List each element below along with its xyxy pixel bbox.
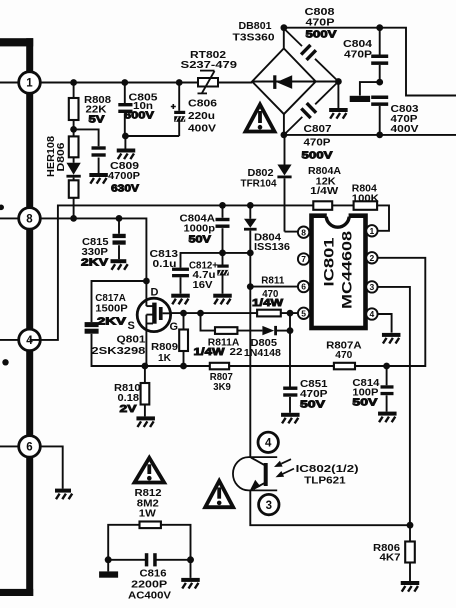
svg-text:TLP621: TLP621 [304, 475, 346, 487]
svg-text:3K9: 3K9 [213, 381, 231, 393]
node pin 4 (winding) [0, 329, 40, 351]
capacitor C812 (electrolytic) [217, 253, 228, 294]
label C805 10n 600V [124, 92, 158, 122]
resistor R811 [257, 310, 281, 317]
ground below pin 6 winding [55, 489, 72, 500]
svg-text:S: S [128, 320, 135, 332]
svg-text:100K: 100K [352, 192, 379, 204]
ground below C809 [89, 173, 108, 184]
label C813 0.1u [150, 248, 179, 270]
svg-text:1/4W: 1/4W [252, 297, 283, 309]
svg-text:AC400V: AC400V [128, 590, 171, 602]
wire pin 3 down to R806 node [378, 287, 410, 525]
svg-text:D: D [151, 287, 159, 299]
wire to pin 6 [250, 286, 298, 288]
ground below C816 right [181, 560, 200, 589]
capacitor C804A [216, 205, 230, 253]
pin 3 of IC801 [366, 281, 377, 292]
label C807 470P 500V [302, 123, 333, 162]
capacitor C815 [113, 218, 126, 259]
label R804 100K [352, 183, 379, 205]
speck dot left edge upper [0, 205, 4, 211]
svg-text:22: 22 [230, 346, 243, 358]
svg-text:2KV: 2KV [81, 257, 108, 269]
svg-text:MC44608: MC44608 [340, 230, 355, 309]
svg-text:470P: 470P [304, 137, 331, 149]
svg-text:8: 8 [26, 214, 33, 226]
pin 2 of IC801 [366, 252, 377, 263]
svg-text:2KV: 2KV [97, 316, 126, 328]
label R807A 470 [326, 340, 362, 362]
junction C806 top [176, 79, 183, 86]
plus sign of C806 [171, 104, 176, 109]
svg-text:6: 6 [26, 442, 32, 454]
svg-text:TFR104: TFR104 [241, 178, 277, 190]
resistor R804 [354, 201, 378, 210]
capacitor C804 [371, 28, 388, 82]
junction C804A top [219, 202, 226, 209]
junction D805 cathode [287, 327, 294, 334]
label R809 1K [151, 341, 178, 364]
resistor R808 [69, 83, 79, 130]
junction bridge right node [335, 78, 342, 85]
node pin 3 circle of IC802 [259, 494, 279, 514]
diode inside bridge [252, 75, 338, 89]
svg-text:630V: 630V [111, 183, 139, 195]
light arrows into IC802 [274, 459, 294, 477]
capacitor C817A [85, 322, 145, 366]
junction R809 bottom [180, 363, 187, 370]
label C812+ 4.7u 16V [189, 259, 218, 291]
diode D802 TFR104 [277, 135, 291, 232]
IC801 MC44608 body [312, 212, 366, 328]
wire C813 top link [181, 253, 251, 268]
label R806 4K7 [373, 542, 401, 564]
label Q801 2SK3298 [91, 334, 145, 358]
warning triangle near optocoupler [205, 481, 233, 507]
junction gate-loop / drain node [143, 278, 150, 285]
svg-text:50V: 50V [300, 399, 325, 411]
resistor R810 [141, 366, 150, 416]
svg-text:4K7: 4K7 [380, 552, 401, 564]
junction C816 left [105, 556, 112, 563]
svg-text:IC801: IC801 [322, 237, 337, 287]
svg-text:3: 3 [266, 500, 272, 512]
label D805 1N4148 [244, 337, 281, 359]
resistor R807A [334, 363, 387, 370]
junction bridge bottom node [281, 132, 288, 139]
svg-text:1500P: 1500P [95, 303, 128, 315]
svg-text:G: G [170, 321, 179, 333]
diode D805 1N4148 [262, 326, 277, 335]
optocoupler IC802 phototransistor [233, 457, 277, 491]
wire bridge right node to ground [337, 82, 339, 109]
diode D804 ISS136 [244, 205, 257, 253]
ground below C805 [117, 136, 136, 159]
junction R811A branch [197, 310, 204, 317]
resistor R807 [210, 363, 334, 370]
svg-text:500V: 500V [306, 29, 337, 41]
resistor R806 [405, 525, 415, 581]
pin 6 of IC801 [298, 281, 309, 292]
svg-text:50V: 50V [352, 397, 377, 409]
label IC802(1/2) TLP621 [296, 463, 359, 487]
transistor Q801 2SK3298 MOSFET [137, 281, 170, 366]
label R810 0.18 2V [114, 382, 141, 415]
wire feedback rail (to R804A) with left loop to pin4 [30, 205, 314, 340]
ground at bridge right node [329, 108, 348, 119]
svg-text:500V: 500V [302, 150, 333, 162]
wire top DC rail to right edge [284, 28, 456, 96]
wire thick bottom-left horizontal bar [0, 589, 33, 596]
svg-text:1: 1 [370, 226, 375, 236]
capacitor C814 [381, 366, 394, 412]
fusible resistor (lower) of D806 string [69, 178, 79, 219]
svg-text:1000p: 1000p [184, 222, 216, 234]
wire D802 to IC pin 8 [285, 231, 298, 233]
pin 4 of IC801 [366, 308, 377, 319]
label C815 330P 2KV [81, 236, 109, 269]
wire R811A-D805 branch [201, 313, 291, 331]
wire pin 2 to C814 node [378, 258, 426, 366]
wire thick top-left horizontal bar [0, 38, 33, 46]
svg-text:220u: 220u [188, 110, 215, 122]
wire bridge top to top rail [283, 28, 285, 49]
capacitor C816 [108, 553, 190, 566]
ground at pin 4 [382, 333, 401, 344]
capacitor C803 [371, 96, 388, 136]
svg-text:4700P: 4700P [108, 170, 140, 182]
svg-text:T3S360: T3S360 [233, 32, 275, 44]
label RT802 S237-479 [181, 49, 238, 71]
resistor R811A [215, 327, 237, 334]
junction Q801 source / R810 [142, 363, 149, 370]
label C803 470P 400V [391, 103, 419, 135]
label R808 22K 5V [84, 94, 111, 126]
svg-text:4: 4 [26, 335, 33, 347]
label D802 TFR104 [241, 167, 277, 190]
label R811 470 1/4W [252, 275, 284, 310]
svg-text:R811: R811 [261, 275, 284, 287]
junction C803 bottom [376, 132, 383, 139]
ground below C851 [281, 413, 300, 424]
node pin 4 circle of IC802 [258, 432, 278, 452]
label C851 470P 50V [300, 378, 328, 411]
capacitor C807 (diagonal branch) [284, 82, 339, 135]
wire gate rail to pin 5 [171, 312, 298, 314]
svg-text:600V: 600V [124, 110, 154, 122]
svg-text:400V: 400V [188, 123, 216, 135]
resistor R812 [108, 522, 190, 560]
label D S G of Q801 [128, 287, 179, 334]
wire bridge bottom to bottom rail [283, 114, 285, 135]
label R812 8M2 1W [135, 487, 162, 520]
wire pin6 winding to ground [40, 446, 63, 488]
warning triangle above R812 [135, 458, 165, 483]
junction D804 top [247, 202, 254, 209]
wire opto emitter to R806 node [250, 490, 410, 525]
label C806 220u 400V [188, 98, 217, 135]
svg-text:2: 2 [370, 253, 375, 263]
junction R808 top [70, 79, 77, 86]
label C808 470P 500V [305, 6, 337, 41]
svg-text:400V: 400V [391, 123, 419, 135]
label C814 100P 50V [352, 377, 379, 409]
ground below C813 [171, 294, 190, 305]
junction R811 right / C851 line [287, 310, 294, 317]
ground below C812 [213, 294, 232, 305]
junction C804A bottom [219, 250, 226, 257]
svg-text:2SK3298: 2SK3298 [91, 345, 145, 357]
junction D806 bottom at pin8 rail [70, 215, 77, 222]
warning triangle near bridge [246, 105, 275, 132]
wire to bar ground [360, 82, 380, 95]
label C809 4700P 630V [108, 160, 140, 195]
junction C814 top [383, 363, 390, 370]
pin 1 of IC801 [366, 225, 377, 236]
label C804 470P [343, 38, 372, 61]
svg-text:C806: C806 [188, 98, 217, 110]
svg-text:1/4W: 1/4W [194, 346, 225, 358]
label D804 ISS136 [254, 232, 290, 254]
wire D804 node down to optocoupler (long vertical) [249, 253, 251, 457]
svg-text:1W: 1W [139, 508, 156, 520]
ground below R810 [136, 416, 155, 427]
speck dot left edge lower [2, 359, 8, 365]
junction C805 bottom [122, 133, 129, 140]
resistor R809 [179, 313, 188, 366]
svg-text:5V: 5V [89, 114, 105, 126]
capacitor C851 [283, 387, 297, 413]
svg-text:6: 6 [301, 282, 306, 292]
junction C816 right [187, 556, 194, 563]
capacitor C813 [172, 268, 189, 294]
junction C805 top [121, 79, 128, 86]
label MC44608 (vertical) [340, 230, 355, 309]
wire mains bus thick vertical bar (left winding edge) [25, 38, 36, 596]
node pin 1 (winding) [0, 72, 40, 94]
node pin 6 (winding) [0, 436, 40, 458]
svg-text:50V: 50V [189, 234, 212, 246]
svg-text:470: 470 [335, 349, 352, 361]
svg-text:1/4W: 1/4W [310, 185, 338, 197]
junction R808 bottom [70, 126, 77, 133]
wire to C817A [92, 281, 147, 322]
wire C805-C806 bottoms [125, 135, 179, 137]
ground below C814 [378, 412, 397, 423]
capacitor C808 (diagonal branch) [284, 28, 339, 81]
pin 5 of IC801 [298, 308, 309, 319]
svg-text:7: 7 [301, 254, 306, 264]
wire source rail [92, 365, 210, 367]
svg-text:ISS136: ISS136 [254, 241, 290, 253]
svg-text:D806: D806 [55, 142, 67, 171]
label R804A 12K 1/4W [308, 165, 341, 197]
svg-text:DB801: DB801 [239, 20, 272, 32]
capacitor C805 [118, 83, 132, 137]
resistor R804A [313, 201, 353, 210]
label C817A 1500P 2KV [95, 292, 128, 328]
junction C804 top [376, 24, 383, 31]
svg-text:C807: C807 [304, 123, 332, 135]
ground below C815 [111, 259, 128, 270]
junction C803 top / C804 bottom [376, 79, 383, 86]
svg-text:IC802(1/2): IC802(1/2) [296, 463, 359, 475]
junction C815 top [116, 215, 123, 222]
ground below R806 [401, 581, 420, 592]
svg-text:1K: 1K [158, 352, 171, 364]
junction D804 bottom [247, 250, 254, 257]
svg-text:16V: 16V [193, 279, 213, 291]
thermistor RT802 [198, 71, 253, 94]
svg-text:Q801: Q801 [117, 334, 146, 346]
capacitor C806 (electrolytic) [174, 83, 185, 137]
label HER108 D806 (vertical) [45, 136, 67, 177]
svg-text:4: 4 [265, 438, 272, 450]
wire top rail from pin1 to bridge [40, 82, 252, 84]
node pin 8 (winding) [0, 208, 40, 230]
wire pin8 rail to gate loop [40, 218, 146, 281]
label DB801 T3S360 [233, 20, 275, 44]
svg-text:1: 1 [26, 78, 33, 90]
label C816 2200P AC400V [128, 568, 171, 602]
ground bar below C816 left [99, 560, 118, 578]
junction R806 top [407, 522, 414, 529]
svg-text:S237-479: S237-479 [181, 59, 238, 71]
wire to C809 [74, 129, 99, 146]
junction bridge top node [281, 24, 288, 31]
svg-text:5: 5 [301, 308, 306, 318]
wire C851 vertical [289, 331, 291, 387]
pin 7 of IC801 [298, 253, 309, 264]
pin 8 of IC801 [298, 227, 309, 238]
diode D806 HER108 [66, 157, 80, 177]
junction pin6 branch [247, 283, 254, 290]
label IC801 (vertical) [322, 237, 337, 287]
svg-text:3: 3 [370, 282, 375, 292]
label C804A 1000p 50V [180, 213, 216, 246]
label R811A 1/4W 22 [194, 337, 243, 358]
fusible resistor (upper) of D806 string [69, 129, 79, 157]
svg-text:470P: 470P [306, 16, 335, 28]
svg-text:470P: 470P [344, 49, 372, 61]
svg-text:2V: 2V [120, 403, 137, 415]
capacitor C809 [92, 146, 106, 173]
wire bottom DC rail to right edge [284, 134, 456, 136]
bridge rectifier DB801 diamond [252, 48, 316, 114]
svg-text:8: 8 [301, 227, 306, 237]
wire pin 4 to ground [378, 314, 392, 333]
svg-text:4: 4 [370, 309, 375, 319]
junction gate/R809 top [180, 310, 187, 317]
svg-text:0.1u: 0.1u [153, 258, 177, 270]
label R807 3K9 [210, 371, 233, 393]
wire R804 to pin 1 [377, 205, 389, 230]
ground bar (C804/C803 junction) [350, 96, 370, 102]
